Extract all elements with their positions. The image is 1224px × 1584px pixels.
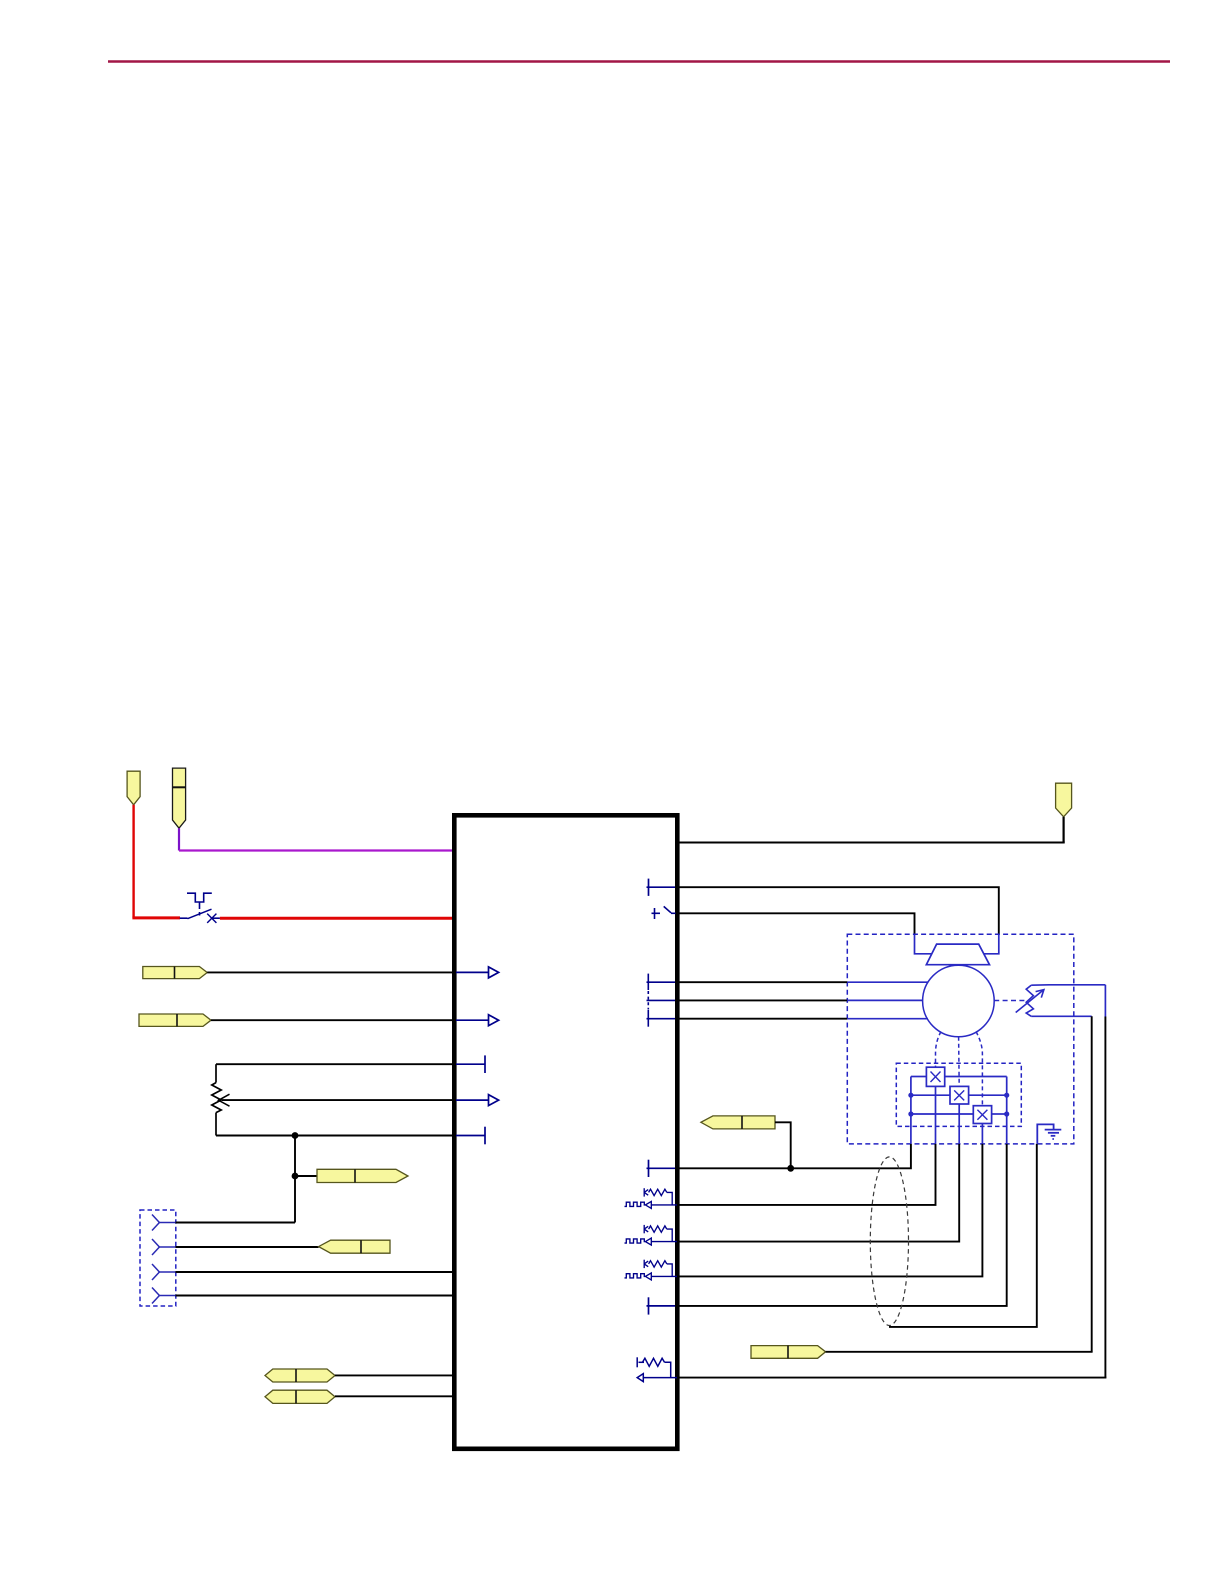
pin analog T y887 [647, 879, 676, 896]
wire y982 to speaker [680, 981, 848, 983]
net flag E (double pointed, row y1375) [265, 1369, 335, 1382]
net flag H (points right, y1352) [751, 1346, 826, 1359]
wire pin1 to junction [176, 1222, 296, 1224]
wire mixer-left down to pin y1168 [680, 1144, 911, 1168]
speaker cone (trapezoid) [926, 944, 989, 965]
junction vertical wire x295 [294, 1136, 296, 1223]
pin analog T y1135 [456, 1127, 485, 1145]
wire flagH to trimmer bottom [826, 1351, 1093, 1353]
wire flagF to IC [335, 1395, 452, 1397]
wire red V+ to IC [220, 917, 452, 920]
net flag D (points left) [319, 1240, 390, 1253]
wire flagB to IC [211, 1019, 452, 1021]
wire mixer2 output to pin y1242 [680, 1144, 960, 1242]
wire red V+ horizontal left of switch [132, 916, 180, 919]
mixer junction dots [908, 1093, 1009, 1117]
connector pin 4 [152, 1288, 176, 1304]
wire flagA to IC [207, 971, 452, 973]
wire y1000 to speaker [680, 999, 848, 1001]
wire y913 to speaker left terminal [680, 913, 915, 934]
pin analog T y1306 [647, 1297, 676, 1314]
pin resistive output y1242 [625, 1225, 678, 1245]
power flag J2 (yellow tall, with band) [173, 768, 186, 828]
mixer right vertical (blue) [1006, 1077, 1008, 1144]
wire IC to flag J4 (row y842) [680, 842, 1065, 844]
trimmer top wire [1031, 984, 1105, 986]
pin arrow input y972 [456, 967, 499, 978]
connector J3 dashed box [140, 1210, 176, 1306]
wire mixer3 output to pin y1276 [680, 1144, 983, 1277]
wire red V+ vertical [132, 805, 134, 918]
net flag A (row y972) [143, 967, 207, 979]
mixer M2 output vertical (blue) [958, 1104, 960, 1144]
wire flagG to junction [775, 1122, 791, 1168]
wire mixer-right down to pin y1306 [680, 1144, 1007, 1306]
header rule [108, 60, 1170, 63]
mixer M3 [973, 1106, 991, 1124]
net flag B (row y1020) [139, 1014, 211, 1026]
pin analog T y1064 [456, 1055, 485, 1073]
dashed lead circle to mixer 1 [936, 1032, 942, 1068]
wire junction to flag C [295, 1175, 317, 1177]
blue continuation left speaker terminal [915, 934, 932, 954]
connector pin 3 [152, 1264, 176, 1280]
net flag G (points left, y1122) [701, 1116, 775, 1129]
switch SW1 [180, 893, 220, 923]
net flag C [317, 1169, 408, 1182]
pin arrow input y1100 [456, 1095, 499, 1106]
pin resistive output y1205 [625, 1188, 678, 1208]
wire trimmer top down right side [1104, 985, 1106, 1017]
pot wiper arrow [219, 1094, 230, 1106]
connector pin 2 [152, 1239, 176, 1255]
wire y887 to speaker right terminal [680, 887, 999, 934]
mixer left vertical (blue) [910, 1077, 912, 1144]
wire purple horizontal to IC [179, 849, 452, 851]
trimmer bottom wire [1031, 1015, 1092, 1017]
wire ground to cable shield [889, 1144, 1037, 1327]
blue wire y1000 inside box [847, 999, 922, 1001]
net flag F (double pointed, row y1396) [265, 1390, 335, 1403]
IC U1 main block [454, 815, 677, 1449]
mixer M1 [926, 1067, 944, 1086]
pin resistive input y1377 [637, 1357, 677, 1381]
pin analog T y1168 [647, 1160, 676, 1177]
blue continuation right speaker terminal [984, 934, 999, 954]
mixer M1 output vertical (blue) [935, 1086, 937, 1144]
wire mixer1 output to pin y1205 [680, 1144, 936, 1205]
wire y1018 to speaker [680, 1018, 848, 1020]
wire trimmer top to pin y1377 [680, 1377, 1107, 1379]
outer dashed box (speaker assembly) [847, 934, 1074, 1144]
junction dot y1135 [292, 1132, 299, 1139]
wire flag J4 down [1062, 817, 1064, 843]
connector pin 1 [152, 1215, 176, 1231]
wire pin3 to IC [176, 1271, 453, 1273]
wire trimmer bottom down right side [1091, 1016, 1093, 1352]
mixers dashed box [896, 1063, 1021, 1126]
wire pot bottom to IC y1135 [216, 1135, 452, 1137]
ground symbol [1037, 1124, 1061, 1144]
wire pin4 to IC [176, 1295, 453, 1297]
wire purple vertical [178, 828, 180, 850]
pin analog bus y982-y1018 [647, 974, 676, 1027]
mixer M3 output vertical (blue) [981, 1124, 983, 1144]
junction dot y1176 [292, 1173, 299, 1180]
speaker body (circle) [923, 965, 995, 1037]
mixer row B wires [911, 1094, 1007, 1096]
mixer row A wires [911, 1076, 1007, 1078]
power flag J1 (yellow, pointed bottom) [127, 771, 140, 805]
pin resistive output y1276 [625, 1260, 678, 1280]
wire pin2 to flag D [176, 1246, 319, 1248]
blue wire y982 inside box [847, 981, 928, 983]
blue wire y1018 inside box [847, 1018, 928, 1020]
mixer M2 [950, 1086, 969, 1104]
mixer row C wires [911, 1113, 1007, 1115]
pin arrow input y1020 [456, 1015, 499, 1026]
wire wiper to IC y1100 [222, 1099, 452, 1101]
dashed lead circle to mixer 2 [958, 1037, 961, 1087]
dashed lead circle to mixer 3 [976, 1032, 982, 1106]
wire pot top to IC y1064 [216, 1063, 452, 1065]
junction dot flagG [787, 1165, 794, 1172]
potentiometer R1 (left) [212, 1064, 221, 1135]
wire flagE to IC [335, 1374, 452, 1376]
pin switch y913 [652, 906, 676, 919]
dashed link circle to trimmer [994, 1000, 1026, 1002]
cable bundle ellipse [870, 1157, 908, 1326]
power flag J4 (top right, pointed bottom) [1056, 783, 1072, 817]
trimmer (variable resistor) [1016, 985, 1044, 1016]
